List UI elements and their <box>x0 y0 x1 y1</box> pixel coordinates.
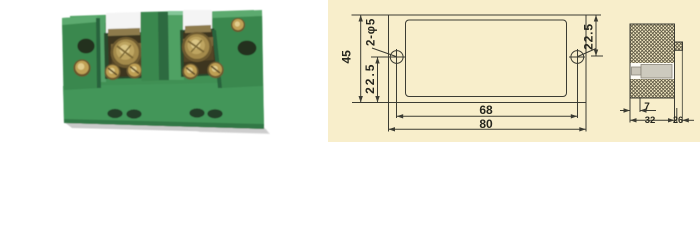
right recess <box>180 28 223 77</box>
green body <box>62 11 264 129</box>
side view body (hatched) <box>630 24 675 98</box>
shadow under box <box>64 122 268 133</box>
front face bottom dark edge <box>64 119 264 129</box>
front face wire hole 4 <box>207 109 222 118</box>
svg-text:22.5: 22.5 <box>363 63 377 94</box>
svg-text:2-φ5: 2-φ5 <box>366 18 378 46</box>
front face (lower band) <box>63 82 264 129</box>
right brass base plate <box>183 37 214 62</box>
right compartment white notch <box>183 10 212 32</box>
right small screw B <box>207 62 223 78</box>
right wall inner dark seam <box>212 30 222 88</box>
right wall <box>212 11 263 88</box>
dimension 45 line <box>360 15 362 103</box>
right small screw A <box>183 64 199 80</box>
right hole horizontal centerline <box>569 56 585 58</box>
mounting hole right <box>571 51 584 64</box>
right 22.5 oblique extension from hole center <box>578 49 596 57</box>
right wall screw <box>231 18 245 32</box>
dimension 80 line <box>389 128 586 130</box>
right 22.5 extension line <box>591 55 603 57</box>
right big terminal screw <box>182 32 212 62</box>
dimension 22.5 left line <box>377 57 379 103</box>
svg-text:45: 45 <box>339 50 353 64</box>
side view slot (white) <box>631 63 675 79</box>
front view outer rectangle <box>389 15 586 103</box>
left big terminal screw <box>111 37 142 68</box>
bottom edge extension to the left (for 45,22.5) <box>352 102 389 104</box>
divider top highlight <box>168 11 183 15</box>
right wall hole <box>238 41 257 56</box>
front face wire hole 2 <box>126 109 141 118</box>
svg-text:32: 32 <box>645 115 656 126</box>
left wall screw <box>73 59 90 76</box>
left hole horizontal centerline <box>371 56 406 58</box>
dimension 22.5 right line <box>595 15 597 56</box>
outer left edge extension down (for 80) <box>388 103 390 132</box>
left brass base plate <box>111 43 143 67</box>
slot clamp large part <box>641 65 672 79</box>
top edge extension to the right (for 22.5) <box>586 14 601 16</box>
front view inner rounded rectangle <box>406 20 567 97</box>
top back rail bright <box>70 10 254 24</box>
26 extension line a <box>676 108 678 123</box>
divider bright face <box>168 11 184 80</box>
dimension 26 line tail <box>682 119 694 121</box>
slot clamp small part <box>632 67 642 75</box>
top edge extension to the left (for 45) <box>351 14 388 16</box>
divider seam dark <box>158 12 169 80</box>
slot feature extension (7) <box>639 98 641 112</box>
left small screw A <box>105 64 121 80</box>
svg-text:68: 68 <box>479 103 493 117</box>
front face wire hole 3 <box>189 108 204 117</box>
side view tab <box>675 42 683 50</box>
front face wire hole 1 <box>107 109 122 118</box>
svg-text:7: 7 <box>644 101 650 112</box>
left compartment bright lip <box>100 18 106 82</box>
svg-text:80: 80 <box>479 117 493 131</box>
dimension 68 line <box>397 115 578 117</box>
side right edge extension down <box>674 98 676 123</box>
white page background <box>0 0 700 142</box>
left hole vertical extension to 68 dim <box>396 49 398 118</box>
left wall <box>62 17 99 90</box>
cream drawing panel <box>328 0 700 142</box>
left wall inner dark seam <box>96 18 101 88</box>
side left edge extension down <box>629 98 631 123</box>
left compartment white notch <box>106 12 141 35</box>
mounting hole left <box>390 51 403 64</box>
left small screw B <box>127 63 143 79</box>
dimension 7 arrow left <box>620 110 630 112</box>
svg-text:26: 26 <box>673 115 683 125</box>
left wall hole <box>77 39 94 54</box>
right busbar in notch <box>185 25 211 33</box>
tab extension line down <box>681 50 683 122</box>
leader 2-phi5 <box>372 48 396 57</box>
left wall bright top <box>62 16 97 25</box>
dimension 32 line <box>630 119 675 121</box>
right wall bright top <box>212 10 262 18</box>
right hole vertical extension to 68 dim <box>576 49 578 118</box>
dimension 7 arrow right + tail <box>640 108 647 112</box>
left busbar in notch <box>108 28 140 36</box>
left recess <box>104 32 149 79</box>
svg-text:22.5: 22.5 <box>582 23 596 50</box>
outer right edge extension down (for 80) <box>585 103 587 132</box>
center divider block <box>141 11 185 81</box>
